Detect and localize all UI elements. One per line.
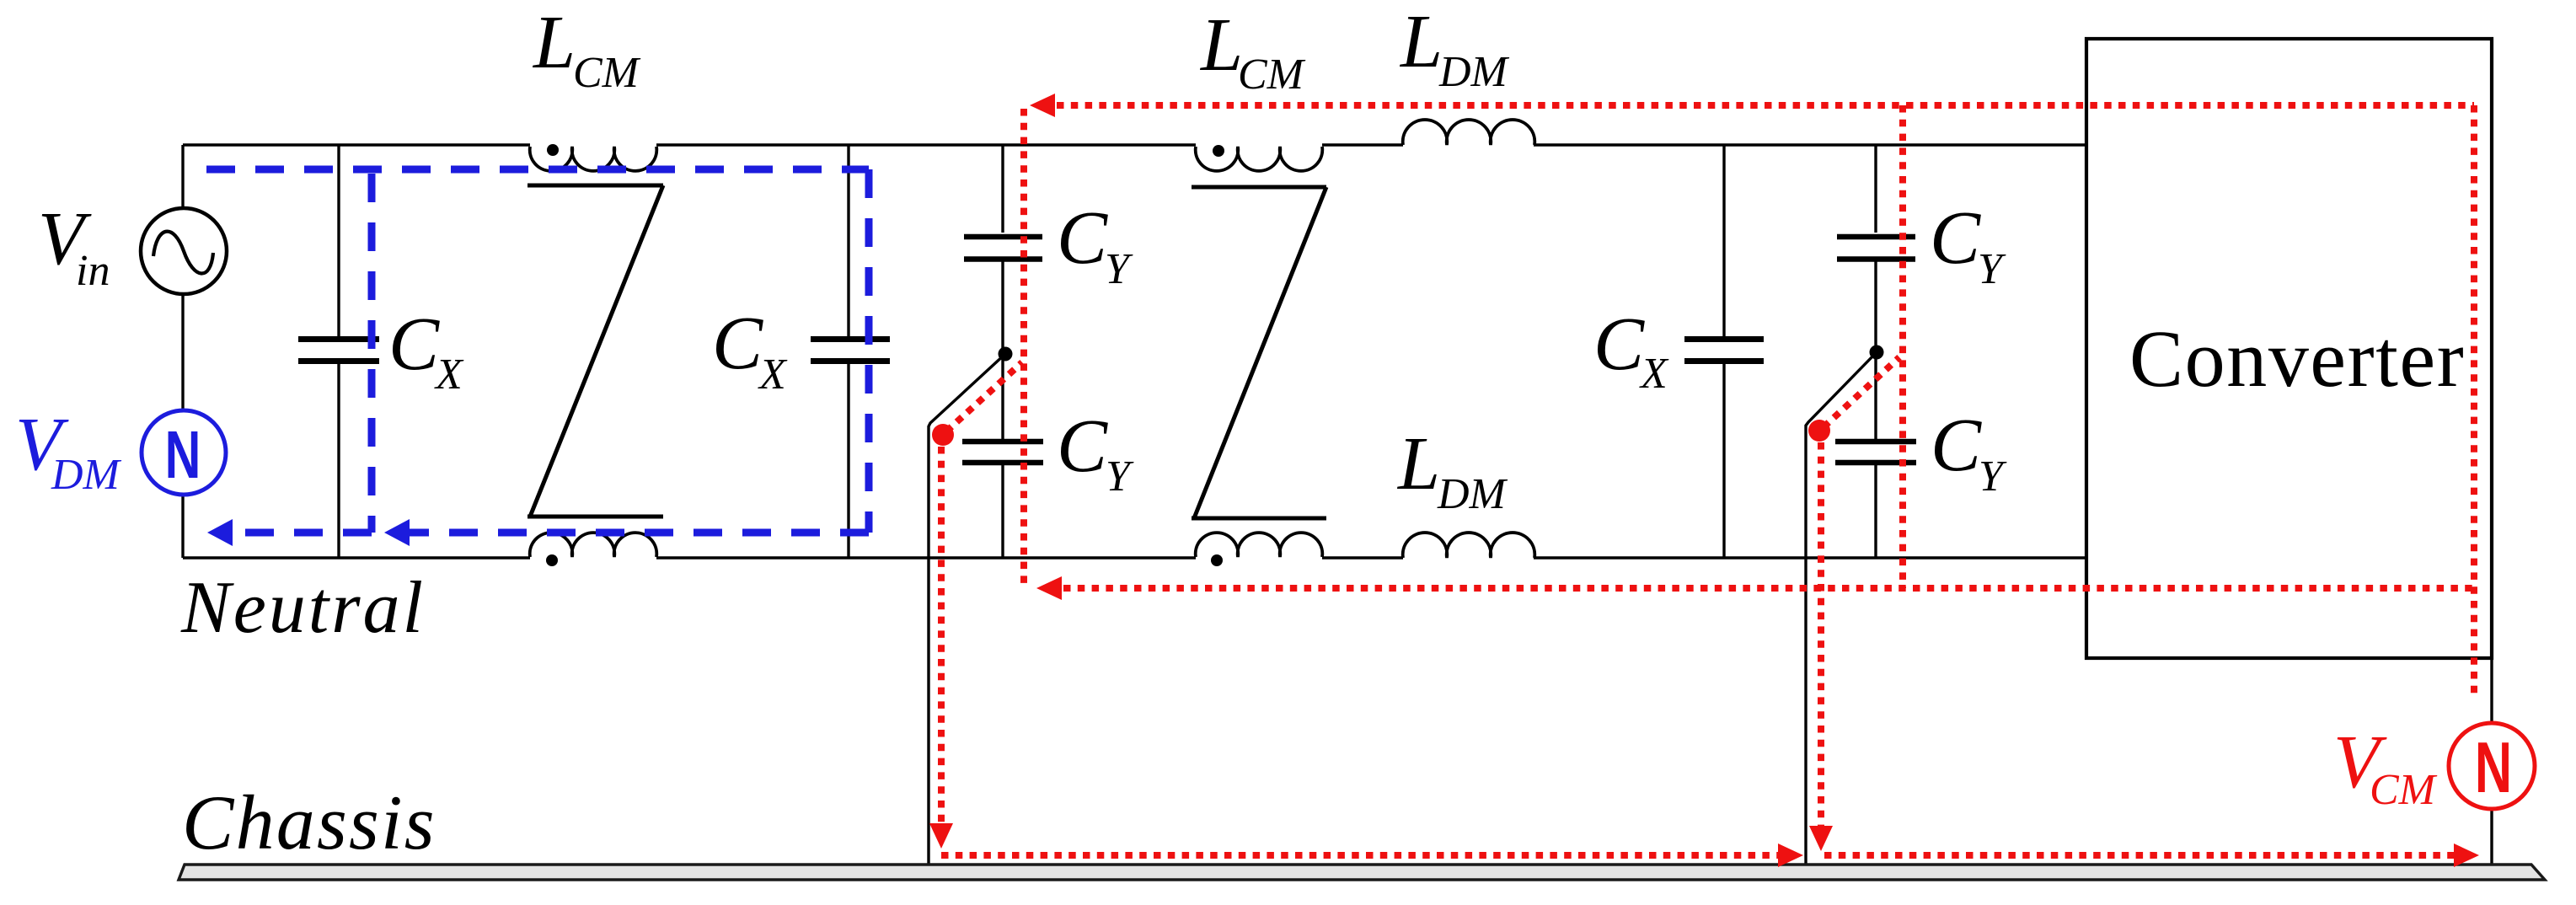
red dot switch1 <box>932 424 954 446</box>
svg-text:in: in <box>76 247 110 295</box>
source VCM circle <box>2449 723 2535 809</box>
capacitor CY1 bottom <box>962 442 1043 463</box>
blue DM path inner vertical <box>368 174 376 533</box>
svg-text:C: C <box>1931 404 1982 487</box>
capacitor CY1 top <box>964 237 1042 260</box>
svg-text:Y: Y <box>1106 452 1134 501</box>
red bottom loop line <box>1063 585 2474 592</box>
node switch 1 <box>999 347 1013 361</box>
blue DM path bottom left segment <box>234 529 372 537</box>
red switch1 diagonal <box>946 362 1022 431</box>
wire Cx1 branch <box>337 145 340 558</box>
svg-text:C: C <box>1057 404 1108 488</box>
inductor LCM1 top winding <box>530 147 657 171</box>
LCM1 core Z symbol <box>528 185 663 517</box>
LCM2 bottom dot <box>1211 554 1223 566</box>
svg-text:Y: Y <box>1979 452 2007 501</box>
svg-text:C: C <box>1930 196 1981 280</box>
svg-text:N: N <box>2475 727 2512 807</box>
red vertical stage2 <box>1020 109 1027 588</box>
wire left source branch <box>181 145 184 558</box>
wire top rail (Line) <box>183 143 2088 146</box>
red switch2 diagonal <box>1824 357 1899 427</box>
red vertical right <box>2471 105 2477 699</box>
red arrow chassis mid <box>1778 843 1803 867</box>
blue arrow left <box>207 519 233 546</box>
red chassis line left <box>941 852 1793 859</box>
svg-text:Y: Y <box>1978 245 2006 293</box>
svg-text:Converter: Converter <box>2129 313 2465 404</box>
red arrow chassis right <box>2454 843 2479 867</box>
capacitor CY2 top <box>1837 237 1915 260</box>
source Vin circle <box>141 208 227 294</box>
inductor LCM2 top winding <box>1196 147 1323 171</box>
red dot switch2 <box>1808 420 1830 442</box>
node switch 2 <box>1870 345 1884 360</box>
svg-text:DM: DM <box>1437 470 1508 518</box>
svg-text:CM: CM <box>1238 51 1306 99</box>
Vin sine glyph <box>153 232 213 274</box>
inductor LDM top <box>1403 120 1535 145</box>
svg-text:Chassis: Chassis <box>182 779 436 865</box>
red switch1 drop <box>938 447 945 838</box>
svg-text:C: C <box>1593 303 1645 386</box>
svg-text:Neutral: Neutral <box>180 567 426 649</box>
red vertical stage3 <box>1899 105 1906 588</box>
red CM path top line <box>1057 102 2474 109</box>
svg-text:C: C <box>1057 196 1108 280</box>
LCM2 top dot <box>1213 145 1224 157</box>
capacitor CX2 <box>811 340 890 361</box>
wire CY string 1 <box>1001 145 1004 558</box>
wire CY string 2 <box>1874 145 1877 558</box>
wire switch 2 to chassis <box>1806 352 1877 865</box>
svg-text:CM: CM <box>573 49 641 97</box>
svg-text:X: X <box>758 351 788 399</box>
svg-text:CM: CM <box>2370 766 2438 814</box>
wire Cx2 branch <box>847 145 849 558</box>
svg-text:Y: Y <box>1105 245 1133 293</box>
red arrow down 2 <box>1809 826 1833 851</box>
svg-text:X: X <box>434 351 464 399</box>
svg-text:C: C <box>712 302 763 385</box>
svg-text:L: L <box>1399 0 1443 83</box>
svg-text:N: N <box>165 416 201 492</box>
wire Cx3 branch <box>1722 145 1725 558</box>
LCM2 core Z symbol <box>1192 187 1326 518</box>
wire switch 1 to chassis <box>929 354 1005 865</box>
capacitor CX1 <box>298 340 379 361</box>
red arrow down 1 <box>929 823 953 849</box>
red chassis line right <box>1824 852 2467 859</box>
svg-text:L: L <box>1199 3 1243 87</box>
blue arrow mid <box>384 519 410 546</box>
blue DM path top line <box>206 166 869 174</box>
svg-text:L: L <box>532 1 576 84</box>
inductor LCM2 bottom winding <box>1196 533 1323 557</box>
chassis ground bar <box>179 865 2545 880</box>
red switch2 drop <box>1818 442 1824 843</box>
inductor LDM bottom <box>1403 533 1535 558</box>
source VDM circle <box>142 410 226 495</box>
svg-text:C: C <box>388 303 440 386</box>
svg-text:X: X <box>1639 350 1669 398</box>
blue DM path right vertical <box>865 169 873 533</box>
wire bottom rail (Neutral) <box>183 556 2088 559</box>
capacitor CY2 bottom <box>1835 442 1916 463</box>
Converter box <box>2086 39 2492 658</box>
svg-text:L: L <box>1396 422 1440 506</box>
LCM1 bottom dot <box>546 554 558 566</box>
LCM1 top dot <box>547 144 559 156</box>
wire converter right to chassis <box>2490 658 2493 865</box>
svg-text:DM: DM <box>51 451 122 499</box>
svg-text:DM: DM <box>1438 48 1510 96</box>
red arrow top-left <box>1030 94 1055 117</box>
capacitor CX3 <box>1684 340 1764 361</box>
blue DM path bottom right segment <box>389 529 869 537</box>
red arrow bottom-left <box>1036 576 1062 600</box>
inductor LCM1 bottom winding <box>530 533 657 557</box>
